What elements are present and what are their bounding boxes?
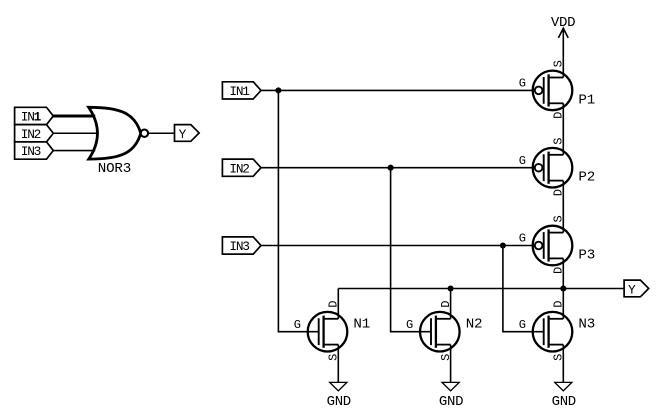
wire N3 drain to rail — [562, 289, 564, 319]
svg-text:G: G — [519, 77, 526, 91]
svg-text:G: G — [519, 318, 526, 332]
junction node P3/N3 drain on rail — [560, 285, 566, 291]
wire IN1 column down to N1 gate — [278, 90, 318, 331]
wire IN3 row to P3 gate — [261, 245, 535, 247]
output pin Y (left NOR3 symbol) — [175, 125, 200, 142]
output rail wire Y — [338, 288, 624, 290]
svg-text:IN3: IN3 — [229, 239, 249, 254]
wire IN2 row to P2 gate — [261, 167, 535, 169]
svg-text:D: D — [439, 301, 453, 308]
svg-text:N1: N1 — [353, 317, 370, 333]
input pin IN2 (CMOS section) — [222, 159, 261, 176]
ground GND symbol N2 — [439, 382, 463, 410]
svg-text:IN1: IN1 — [229, 84, 250, 99]
pmos P1 — [519, 60, 595, 119]
wire IN3 to NOR3 gate — [53, 150, 95, 152]
svg-text:IN2: IN2 — [229, 161, 249, 176]
input pin IN1 (left NOR3 symbol) — [15, 107, 54, 124]
svg-text:D: D — [327, 301, 341, 308]
wire NOR3 output to Y pin — [148, 132, 174, 134]
input pin IN3 (CMOS section) — [222, 237, 261, 254]
wire N1 drain to rail — [337, 289, 339, 319]
junction node IN1 — [275, 87, 281, 93]
wire P3 drain to output rail — [562, 258, 564, 288]
junction node N2 drain on rail — [448, 285, 454, 291]
wire N2 source to GND — [450, 345, 452, 383]
junction node IN2 — [388, 165, 394, 171]
nmos N2 — [406, 301, 482, 361]
wire N3 source to GND — [562, 345, 564, 383]
svg-text:GND: GND — [327, 394, 351, 410]
input pin IN3 (left NOR3 symbol) — [15, 142, 54, 159]
wire IN1 row to P1 gate — [261, 89, 535, 91]
svg-text:G: G — [406, 318, 413, 332]
svg-text:P3: P3 — [578, 248, 595, 264]
svg-text:P1: P1 — [578, 92, 595, 108]
svg-text:IN2: IN2 — [21, 127, 41, 142]
svg-text:NOR3: NOR3 — [98, 161, 131, 177]
wire IN1 to NOR3 gate (bold/high) — [53, 114, 95, 117]
ground GND symbol N3 — [552, 382, 576, 410]
input pin IN1 (CMOS section) — [222, 82, 261, 99]
wire P2 drain to P3 source — [562, 181, 564, 233]
wire N2 drain to rail — [450, 289, 452, 319]
svg-text:S: S — [552, 138, 566, 145]
wire IN2 column down to N2 gate — [391, 168, 431, 332]
nmos N3 — [519, 301, 595, 361]
junction node IN3 — [500, 242, 506, 248]
wire IN2 to NOR3 gate — [53, 132, 98, 134]
svg-text:IN1: IN1 — [21, 110, 42, 125]
power VDD supply symbol — [551, 15, 575, 78]
svg-text:P2: P2 — [578, 170, 595, 186]
pmos P2 — [519, 138, 595, 196]
svg-text:N2: N2 — [466, 317, 483, 333]
svg-text:S: S — [552, 216, 566, 223]
NOR3 output inversion bubble — [141, 130, 148, 137]
svg-text:G: G — [519, 232, 526, 246]
output pin Y (CMOS section) — [624, 280, 649, 297]
svg-text:D: D — [552, 301, 566, 308]
svg-text:G: G — [294, 318, 301, 332]
NOR3 gate body — [89, 107, 141, 177]
svg-text:G: G — [519, 154, 526, 168]
svg-text:GND: GND — [439, 394, 463, 410]
svg-text:GND: GND — [552, 394, 576, 410]
wire P1 drain to P2 source — [562, 103, 564, 155]
svg-text:N3: N3 — [578, 317, 595, 333]
ground GND symbol N1 — [327, 382, 351, 410]
wire N1 source to GND — [337, 345, 339, 383]
wire IN3 column down to N3 gate — [503, 246, 544, 332]
svg-text:S: S — [552, 60, 566, 67]
nmos N1 — [294, 301, 370, 361]
input pin IN2 (left NOR3 symbol) — [15, 125, 54, 142]
svg-text:IN3: IN3 — [21, 144, 41, 159]
pmos P3 — [519, 216, 595, 275]
